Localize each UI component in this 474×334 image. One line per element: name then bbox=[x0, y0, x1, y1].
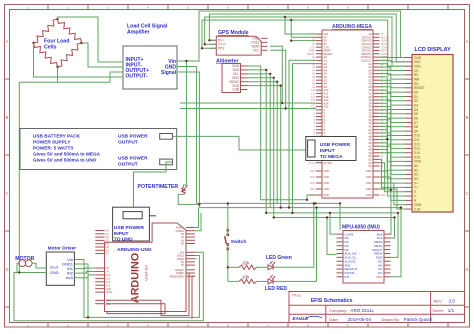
svg-text:Sheet:: Sheet: bbox=[432, 308, 444, 313]
svg-text:Signal: Signal bbox=[161, 70, 177, 76]
motor driver U8 bbox=[46, 246, 76, 286]
svg-text:D11: D11 bbox=[106, 277, 111, 281]
svg-text:D8: D8 bbox=[106, 266, 110, 270]
wire MPU GND riser bbox=[391, 213, 399, 258]
svg-text:USB POWER: USB POWER bbox=[118, 156, 148, 162]
wire bottom bus SCL bbox=[266, 212, 398, 214]
red wire UNO RESERVED wrap bbox=[192, 276, 195, 319]
wire UNO wrap GND1 to driver bbox=[74, 256, 199, 318]
svg-text:10k: 10k bbox=[242, 274, 250, 279]
svg-text:A: A bbox=[6, 39, 9, 44]
svg-text:Gives 5V and 500mA to UNO: Gives 5V and 500mA to UNO bbox=[33, 158, 97, 163]
LED D2 red bbox=[265, 275, 287, 292]
svg-text:RESERVED: RESERVED bbox=[170, 274, 184, 278]
svg-text:VCC: VCC bbox=[253, 49, 260, 53]
wire motor GND loop bbox=[17, 263, 46, 272]
svg-text:VDD: VDD bbox=[376, 275, 383, 279]
wire UNO A4SDA bbox=[195, 213, 201, 231]
svg-text:Gives 5V and 500mA to MEGA: Gives 5V and 500mA to MEGA bbox=[33, 152, 101, 157]
svg-text:GND: GND bbox=[324, 187, 330, 191]
wire amp GND down bbox=[177, 67, 197, 204]
EAGLE logo bbox=[293, 316, 323, 321]
svg-text:GND: GND bbox=[366, 193, 372, 197]
wire MPU AUX feed bbox=[327, 218, 337, 255]
svg-text:USB POWER: USB POWER bbox=[320, 142, 351, 148]
svg-text:GND: GND bbox=[366, 169, 372, 173]
svg-text:3V: 3V bbox=[181, 263, 184, 267]
svg-text:POWER: 5 WATTS: POWER: 5 WATTS bbox=[33, 146, 74, 151]
svg-text:A: A bbox=[466, 39, 469, 44]
load-cell bridge (four load cells) bbox=[32, 18, 82, 68]
svg-text:D9: D9 bbox=[106, 270, 110, 274]
LED D1 green bbox=[266, 255, 292, 270]
wire motor to driver Vout bbox=[32, 263, 46, 268]
wire UNO wrap VIN to motor loop bbox=[14, 252, 203, 320]
wire bridge ground to motor area bbox=[19, 82, 57, 272]
svg-text:EAGLE: EAGLE bbox=[293, 316, 310, 321]
wire MPU SDA riser bbox=[390, 198, 393, 234]
svg-text:GND: GND bbox=[324, 181, 330, 185]
wire MPU CLKIN feed bbox=[330, 213, 337, 234]
svg-text:INPUT: INPUT bbox=[320, 148, 335, 154]
MPU-6050 IMU U6 bbox=[337, 225, 391, 284]
wire I2C riser SCL to MEGA bbox=[293, 64, 317, 213]
wire I2C riser SDA to MEGA bbox=[289, 60, 316, 207]
svg-text:D7: D7 bbox=[106, 252, 110, 256]
svg-text:GND: GND bbox=[310, 170, 316, 173]
wire bottom bus GND bbox=[197, 202, 340, 204]
svg-text:UNO R3: UNO R3 bbox=[144, 265, 149, 281]
svg-text:Patrick Quach: Patrick Quach bbox=[404, 317, 433, 322]
wire GPS VBAT down bbox=[270, 46, 282, 103]
wire pot top bbox=[184, 61, 187, 187]
svg-text:Drawn By:: Drawn By: bbox=[382, 317, 400, 322]
wire enA to D10 bbox=[74, 275, 95, 278]
svg-text:AREF: AREF bbox=[106, 290, 113, 294]
svg-text:GND: GND bbox=[106, 287, 112, 291]
wire pot bottom bbox=[178, 194, 199, 204]
svg-text:OUTPUT-: OUTPUT- bbox=[126, 74, 148, 80]
wire top bus loop 1 bbox=[199, 11, 405, 61]
wire MPU VDD riser bbox=[391, 208, 402, 277]
svg-text:GND: GND bbox=[366, 175, 372, 179]
wire IN1 to D8 bbox=[74, 267, 95, 270]
svg-text:53: 53 bbox=[368, 164, 372, 168]
svg-text:GPS Module: GPS Module bbox=[218, 30, 249, 36]
svg-text:POTENTIMETER: POTENTIMETER bbox=[138, 184, 179, 190]
svg-text:INPUT: INPUT bbox=[114, 231, 129, 237]
svg-text:Switch: Switch bbox=[231, 239, 247, 245]
LCD display U5 bbox=[405, 47, 453, 212]
wire long nets to MEGA A-pins bbox=[180, 102, 316, 104]
svg-text:LED Green: LED Green bbox=[266, 255, 292, 261]
svg-text:EFIS Schematics: EFIS Schematics bbox=[311, 298, 353, 304]
wire MPU SCL riser bbox=[391, 218, 395, 239]
svg-text:LCD DISPLAY: LCD DISPLAY bbox=[415, 47, 451, 53]
wire altimeter VDD bbox=[248, 86, 281, 208]
svg-text:Amplifier: Amplifier bbox=[127, 30, 149, 36]
wire MEGA 5V feed 2 bbox=[291, 40, 316, 42]
svg-text:ARO 2311L: ARO 2311L bbox=[350, 308, 374, 313]
svg-text:enA: enA bbox=[66, 275, 73, 280]
wire bus to MPU area bbox=[339, 203, 341, 230]
wire USB output2 to UNO usb bbox=[134, 162, 173, 208]
svg-text:ARDUINO: ARDUINO bbox=[130, 253, 142, 303]
svg-text:POWER SUPPLY: POWER SUPPLY bbox=[33, 140, 71, 145]
svg-text:USB BATTERY PACK: USB BATTERY PACK bbox=[33, 134, 81, 139]
wire altimeter GND bbox=[248, 66, 308, 200]
svg-text:TITLE:: TITLE: bbox=[292, 294, 302, 298]
wire bus MEGA to LCD bbox=[380, 57, 406, 209]
potentiometer R3 bbox=[138, 184, 188, 194]
svg-text:GND: GND bbox=[310, 182, 316, 185]
wire USB output1 to MEGA usb bbox=[172, 136, 305, 150]
svg-text:GND: GND bbox=[366, 187, 372, 191]
svg-text:D: D bbox=[465, 267, 468, 272]
svg-text:TO MEGA: TO MEGA bbox=[320, 154, 343, 160]
wire top bus loop 3 / GPS TX-O bbox=[205, 17, 405, 66]
svg-text:TO UNO: TO UNO bbox=[114, 236, 133, 242]
svg-text:GND: GND bbox=[381, 194, 387, 197]
GPS module U2 bbox=[211, 30, 268, 55]
svg-text:MPU-6050 (IMU): MPU-6050 (IMU) bbox=[342, 225, 380, 231]
resistor R2 10k bbox=[228, 274, 268, 283]
svg-text:CSB: CSB bbox=[232, 88, 239, 92]
svg-text:GND: GND bbox=[324, 175, 330, 179]
svg-text:REV:: REV: bbox=[434, 298, 443, 303]
load cell signal amplifier U1 bbox=[123, 24, 177, 90]
svg-text:1(TX0): 1(TX0) bbox=[308, 162, 316, 165]
svg-text:2.0: 2.0 bbox=[449, 298, 456, 303]
svg-text:D12: D12 bbox=[106, 280, 111, 284]
wire driver GND branch bbox=[74, 264, 88, 317]
wire altimeter VDDIO bbox=[248, 82, 278, 204]
svg-text:D: D bbox=[5, 267, 8, 272]
svg-text:Company:: Company: bbox=[329, 308, 347, 313]
svg-text:INT: INT bbox=[345, 275, 350, 279]
wire MEGA GND drop bbox=[307, 195, 316, 200]
wire bottom bus 5V bbox=[274, 217, 395, 219]
svg-text:USB POWER: USB POWER bbox=[118, 134, 148, 140]
svg-text:GND: GND bbox=[310, 188, 316, 191]
svg-text:Date:: Date: bbox=[329, 317, 339, 322]
svg-text:PPS: PPS bbox=[218, 47, 224, 51]
title block bbox=[289, 292, 465, 323]
svg-text:C: C bbox=[5, 191, 8, 196]
svg-text:GND: GND bbox=[324, 193, 330, 197]
svg-text:USB POWER: USB POWER bbox=[114, 225, 145, 231]
wire MEGA VIN feed bbox=[285, 17, 316, 34]
svg-text:D13: D13 bbox=[106, 283, 111, 287]
wire bottom bus SDA bbox=[199, 207, 401, 209]
wire altimeter SCL bbox=[248, 74, 271, 208]
altimeter U3 bbox=[216, 59, 248, 93]
wire GPS VCC down bbox=[270, 50, 286, 108]
svg-text:B: B bbox=[6, 115, 9, 120]
svg-text:D10: D10 bbox=[106, 273, 111, 277]
motor M1 bbox=[15, 256, 34, 266]
wire LED green return bbox=[273, 203, 314, 267]
svg-text:Motor Driver: Motor Driver bbox=[48, 246, 77, 252]
wire amp Signal down bbox=[177, 72, 199, 208]
wire top bus loop 2 / GPS RX-I bbox=[209, 14, 405, 62]
red wire UNO SDA wrap bbox=[106, 273, 195, 316]
svg-text:10k: 10k bbox=[242, 260, 250, 265]
svg-text:2019-05-04: 2019-05-04 bbox=[348, 317, 372, 322]
svg-text:C: C bbox=[465, 191, 468, 196]
wire altimeter SDO bbox=[248, 78, 274, 218]
svg-text:3.3V: 3.3V bbox=[414, 207, 421, 211]
svg-text:GND: GND bbox=[310, 176, 316, 179]
wire switch bottom bbox=[227, 246, 229, 282]
red wire UNO SCL wrap bbox=[106, 304, 165, 314]
svg-text:A0: A0 bbox=[181, 242, 185, 246]
USB power input to MEGA connector bbox=[306, 137, 356, 161]
wire switch top bbox=[227, 203, 229, 233]
wire top bus loop 4 / GPS PPS bbox=[202, 20, 405, 70]
wire bridge to amplifier bbox=[34, 17, 124, 82]
svg-text:Vout: Vout bbox=[50, 264, 59, 269]
wire LED red return bbox=[273, 208, 316, 282]
svg-text:ARDUINO-UNO: ARDUINO-UNO bbox=[117, 247, 152, 253]
svg-text:GND: GND bbox=[324, 169, 330, 173]
svg-text:GND: GND bbox=[310, 194, 316, 197]
wire altimeter SDA bbox=[248, 70, 267, 213]
svg-text:1(TX0): 1(TX0) bbox=[324, 161, 333, 165]
USB power input to UNO connector bbox=[113, 207, 156, 242]
resistor R1 10k bbox=[228, 260, 268, 269]
switch S1 bbox=[225, 229, 247, 250]
USB battery pack PS1 bbox=[20, 129, 177, 170]
svg-text:ARDUINO-MEGA: ARDUINO-MEGA bbox=[332, 24, 372, 30]
wire UNO GND2 stub bbox=[195, 258, 197, 260]
Arduino MEGA U4 bbox=[307, 24, 390, 198]
svg-text:1/1: 1/1 bbox=[448, 308, 455, 313]
wire UNO A5SCL bbox=[195, 208, 199, 228]
wire IN2 to D9 bbox=[74, 271, 95, 273]
svg-text:OUTPUT: OUTPUT bbox=[118, 162, 138, 168]
wire amp Vin rail bbox=[177, 61, 199, 62]
svg-text:GND: GND bbox=[366, 181, 372, 185]
svg-text:B: B bbox=[466, 115, 469, 120]
wire MEGA 5V feed bbox=[291, 20, 316, 37]
svg-text:GND: GND bbox=[50, 270, 59, 275]
svg-text:OUTPUT: OUTPUT bbox=[118, 140, 138, 146]
svg-text:Cells: Cells bbox=[44, 45, 57, 51]
Arduino UNO U7 bbox=[95, 223, 195, 312]
svg-text:LED RED: LED RED bbox=[265, 286, 287, 292]
